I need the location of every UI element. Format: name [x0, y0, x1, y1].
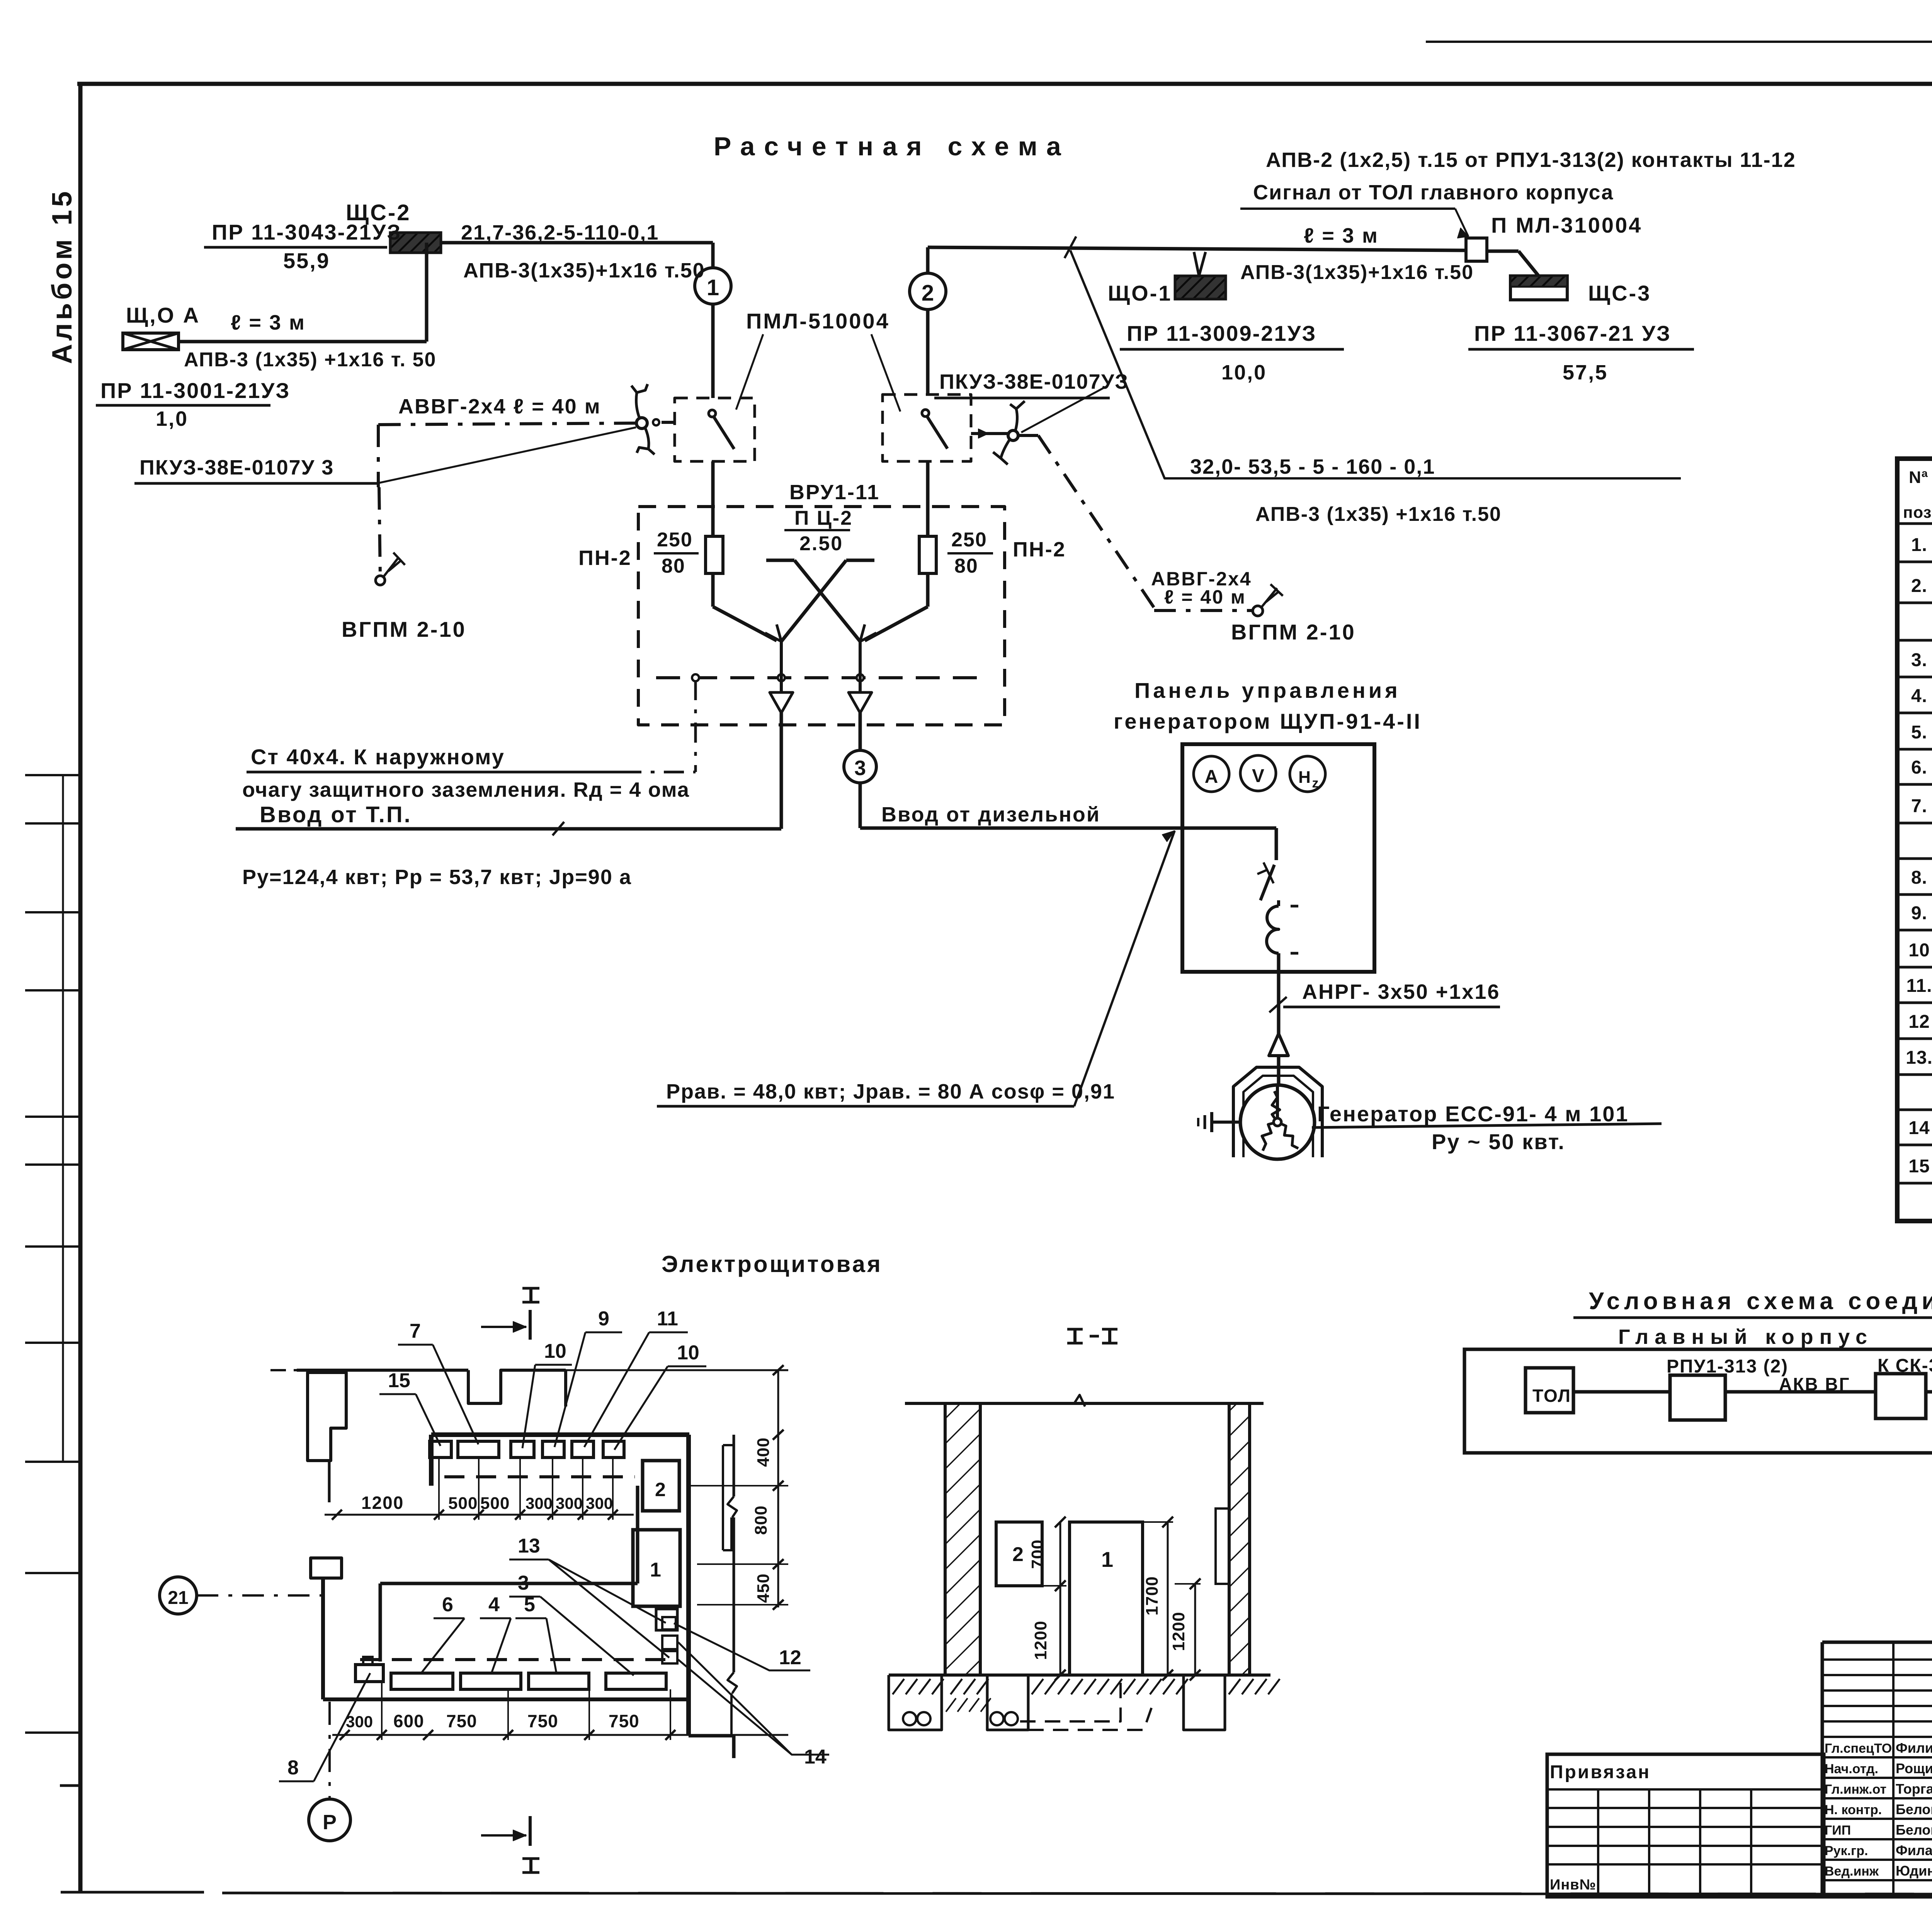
plan callout 6 [421, 1594, 464, 1673]
svg-text:55,9: 55,9 [283, 248, 330, 273]
svg-text:5.: 5. [1911, 722, 1927, 743]
plan upper-left pier [308, 1372, 346, 1502]
plan right wall outer with niche [723, 1435, 737, 1736]
svg-text:8: 8 [287, 1757, 299, 1779]
svg-text:Гл.спецТО: Гл.спецТО [1825, 1741, 1892, 1756]
svg-text:750: 750 [446, 1711, 477, 1731]
axis circle 21 with dash-dot line [160, 1577, 323, 1614]
plug symbol ВГПМ 2-10 left label [342, 617, 466, 641]
panel box ЩУП-91-4-II [1182, 744, 1374, 972]
svg-text:15: 15 [1908, 1156, 1930, 1177]
svg-text:Н: Н [1298, 768, 1311, 787]
svg-text:ПН-2: ПН-2 [578, 546, 632, 570]
device box КСК-32 [1876, 1355, 1932, 1418]
svg-text:300: 300 [526, 1494, 553, 1512]
svg-text:21,7-36,2-5-110-0,1: 21,7-36,2-5-110-0,1 [461, 221, 659, 244]
wire out of right box with cam switch [971, 401, 1038, 464]
plan adjacent wall top [270, 1365, 788, 1406]
svg-text:2: 2 [922, 281, 934, 306]
svg-text:2.50: 2.50 [799, 532, 843, 555]
svg-text:Привязан: Привязан [1550, 1762, 1651, 1782]
svg-text:Вед.инж: Вед.инж [1825, 1864, 1879, 1879]
svg-text:ℓ = 3 м: ℓ = 3 м [231, 311, 306, 334]
svg-text:ПР 11-3009-21УЗ: ПР 11-3009-21УЗ [1127, 321, 1316, 345]
svg-text:1200: 1200 [1031, 1621, 1050, 1660]
svg-text:2: 2 [655, 1479, 666, 1500]
axis circle P [309, 1702, 350, 1841]
break mark on wire [1065, 236, 1076, 258]
plan panel 1 box [633, 1530, 680, 1606]
svg-text:АПВ-3(1х35)+1х16 т.50: АПВ-3(1х35)+1х16 т.50 [463, 259, 705, 282]
section mark I top [481, 1288, 539, 1340]
svg-text:4.: 4. [1911, 686, 1927, 706]
svg-text:1.: 1. [1911, 535, 1927, 555]
svg-text:П МЛ-310004: П МЛ-310004 [1491, 213, 1642, 237]
fuse ПН-2 left [578, 461, 723, 607]
svg-text:ЩС-3: ЩС-3 [1588, 281, 1651, 305]
svg-text:А: А [1205, 767, 1218, 787]
svg-text:32,0- 53,5 - 5 - 160 - 0,1: 32,0- 53,5 - 5 - 160 - 0,1 [1190, 455, 1435, 478]
connector arrow to generator [1269, 1034, 1288, 1088]
meter Hz [1290, 756, 1325, 792]
svg-text:3: 3 [854, 757, 866, 780]
svg-text:ЩО-1: ЩО-1 [1108, 281, 1172, 305]
meter A [1194, 756, 1229, 792]
changeover crossover contacts [713, 560, 928, 641]
svg-text:Электрощитовая: Электрощитовая [662, 1251, 883, 1277]
svg-text:Филин: Филин [1896, 1740, 1932, 1756]
panel ЩО-1 filled box [1108, 276, 1226, 305]
node circle 3 [844, 750, 876, 828]
node circle 1 [695, 243, 731, 398]
equipment table header [1903, 468, 1932, 522]
svg-text:Рук.гр.: Рук.гр. [1825, 1844, 1868, 1858]
panel ЩС-2 label [346, 200, 411, 225]
plan callout 14 [678, 1642, 829, 1768]
tap to ЩО-1 [1194, 252, 1206, 276]
svg-text:450: 450 [754, 1573, 773, 1603]
plan lower panel row [355, 1657, 666, 1689]
section dim 1700 [1143, 1517, 1173, 1680]
plan right dimension 400 800 450 [691, 1370, 788, 1610]
cable label АПВ-3 (1х35)+1х16 т.50 left [184, 349, 436, 371]
svg-text:4: 4 [488, 1594, 500, 1616]
svg-text:ℓ = 40 м: ℓ = 40 м [1164, 586, 1246, 608]
svg-text:1: 1 [1101, 1547, 1113, 1571]
section trench left [889, 1675, 942, 1730]
plan callout 4 [480, 1594, 511, 1673]
plan callout 8 [279, 1673, 370, 1781]
wire ЩС-2 to node 1 [441, 241, 713, 245]
svg-text:750: 750 [527, 1711, 558, 1731]
scheme wire with break and arrow [1573, 1380, 1932, 1401]
meter V [1240, 755, 1276, 791]
svg-text:10,0: 10,0 [1221, 361, 1267, 384]
svg-text:3: 3 [518, 1572, 529, 1594]
svg-text:300: 300 [346, 1713, 373, 1731]
svg-text:10: 10 [1908, 940, 1930, 961]
sheet frame top thin edge line [1426, 41, 1932, 43]
input line Ввод от дизельной [860, 803, 1276, 828]
feeder label ПР 11-3043-21УЗ with 55,9 [204, 220, 401, 273]
svg-text:14: 14 [1908, 1118, 1930, 1138]
svg-text:7.: 7. [1911, 796, 1927, 816]
svg-text:АВВГ-2х4 ℓ = 40 м: АВВГ-2х4 ℓ = 40 м [398, 395, 601, 418]
svg-text:3.: 3. [1911, 650, 1927, 670]
svg-text:500: 500 [480, 1494, 510, 1513]
wire ЩОА to ЩС-2 node [179, 243, 427, 342]
svg-text:ПН-2: ПН-2 [1013, 538, 1066, 561]
section ground hatching [893, 1679, 1280, 1712]
feeder label ПР 11-3067-21 УЗ with 57,5 [1468, 321, 1694, 384]
svg-text:П Ц-2: П Ц-2 [794, 507, 853, 529]
generator label ЕСС-91-4 м 101 [1312, 1102, 1662, 1154]
svg-text:Рощин: Рощин [1896, 1760, 1932, 1776]
cabinet ВРУ1-11 dashed box [638, 481, 1005, 725]
svg-text:ТОЛ: ТОЛ [1532, 1386, 1571, 1406]
panel ЩОА label [126, 303, 200, 327]
panel ЩС-2 filled box [390, 233, 441, 253]
svg-text:700: 700 [1028, 1539, 1047, 1569]
signature table names [1825, 1740, 1932, 1879]
signal text Сигнал от ТОЛ главного корпуса [1240, 181, 1614, 238]
svg-text:Расчетная схема: Расчетная схема [714, 132, 1070, 161]
svg-text:10: 10 [677, 1342, 699, 1364]
length label l=3м right [1304, 224, 1379, 247]
svg-text:ПР 11-3043-21УЗ: ПР 11-3043-21УЗ [212, 220, 401, 244]
svg-text:6.: 6. [1911, 757, 1927, 778]
svg-text:80: 80 [954, 555, 978, 577]
svg-text:750: 750 [609, 1711, 639, 1731]
svg-text:13: 13 [518, 1535, 540, 1557]
svg-text:Сигнал от ТОЛ главного: Сигнал от ТОЛ главного корпуса [1253, 181, 1614, 204]
svg-text:ПМЛ-510004: ПМЛ-510004 [746, 309, 890, 333]
section underfloor dashed cable [1020, 1681, 1151, 1730]
plan callout 13 with leaders [509, 1535, 669, 1658]
ground symbol at generator [1198, 1112, 1241, 1132]
svg-text:400: 400 [754, 1437, 773, 1467]
device box РПУ1-313(2) [1667, 1356, 1788, 1420]
svg-text:Альбом 15: Альбом 15 [47, 188, 78, 364]
svg-text:АПВ-3 (1х35) +1х16 т.50: АПВ-3 (1х35) +1х16 т.50 [1255, 503, 1502, 526]
vertical text Альбом 15 [47, 188, 78, 364]
section ceiling line [905, 1395, 1264, 1406]
svg-text:9: 9 [598, 1308, 609, 1330]
switch label ПКУЗ-38Е-0107УЗ right [934, 370, 1129, 432]
input line Ввод от Т.П. [236, 802, 781, 889]
earth bus dashed with junctions [656, 674, 981, 681]
svg-text:12: 12 [779, 1646, 801, 1669]
svg-text:Инв№: Инв№ [1550, 1877, 1596, 1893]
earthing leader Ст 40х4 [242, 680, 696, 801]
svg-text:Условная схема соединения Р: Условная схема соединения РПУ1-313 (2) с… [1589, 1288, 1932, 1315]
dash-dot cable АВВГ right to ВГПМ [1038, 435, 1356, 644]
dash-dot cable АВВГ-2х4 to ВГПМ 2-10 left [376, 423, 636, 585]
svg-text:1700: 1700 [1143, 1576, 1162, 1616]
svg-text:57,5: 57,5 [1563, 361, 1608, 384]
svg-text:21: 21 [168, 1588, 188, 1608]
svg-text:8.: 8. [1911, 867, 1927, 888]
svg-text:1: 1 [650, 1559, 661, 1581]
section trench middle [987, 1675, 1028, 1730]
equipment table grid [1897, 459, 1932, 1221]
left margin fold ticks [25, 775, 80, 1786]
plan callout 12 [674, 1623, 810, 1670]
plan panel 2 box [643, 1461, 679, 1511]
section title I-I [1067, 1329, 1117, 1343]
svg-text:Р: Р [323, 1811, 337, 1834]
length label l=3м left [231, 311, 306, 334]
svg-text:ВГПМ 2-10: ВГПМ 2-10 [1231, 620, 1356, 644]
fuse ПН-2 right [919, 461, 1066, 607]
svg-text:2.: 2. [1911, 576, 1927, 596]
contactor ПМЛ-510004 label with leaders [736, 309, 900, 412]
main building box [1464, 1349, 1932, 1453]
svg-text:АПВ-3 (1х35) +1х16 т. 50: АПВ-3 (1х35) +1х16 т. 50 [184, 349, 436, 371]
panel title Панель управления генератором ЩУП-91-4-II [1114, 678, 1422, 733]
svg-text:1,0: 1,0 [156, 407, 188, 430]
svg-text:1: 1 [707, 275, 719, 300]
svg-text:Щ,О А: Щ,О А [126, 303, 200, 327]
contactor box left dashed [675, 398, 755, 461]
svg-text:Нач.отд.: Нач.отд. [1825, 1762, 1878, 1776]
svg-text:ВРУ1-11: ВРУ1-11 [789, 481, 880, 504]
svg-text:12: 12 [1908, 1012, 1930, 1032]
section dim 1200 right [1169, 1578, 1201, 1680]
svg-text:АНРГ- 3х50 +1х16: АНРГ- 3х50 +1х16 [1302, 980, 1500, 1003]
svg-text:Белокурова: Белокурова [1896, 1801, 1932, 1817]
svg-text:ℓ = 3 м: ℓ = 3 м [1304, 224, 1379, 247]
section trench right [1184, 1675, 1225, 1730]
svg-text:генератором ЩУП-91-4-II: генератором ЩУП-91-4-II [1114, 709, 1422, 733]
svg-text:Юдина: Юдина [1896, 1863, 1932, 1879]
section mark I bottom [481, 1816, 539, 1872]
svg-text:14: 14 [804, 1746, 827, 1768]
svg-text:2: 2 [1012, 1543, 1024, 1566]
plan conduit to panel 1 [380, 1486, 638, 1662]
switch label ПКУЗ-38Е-0107У3 left [134, 427, 636, 483]
title block left Привязан box [1547, 1754, 1824, 1897]
svg-text:Главный корпус: Главный корпус [1618, 1325, 1873, 1349]
svg-text:Ррав. = 48,0 квт; Jрав. = 8: Ррав. = 48,0 квт; Jрав. = 80 А cosφ = 0,… [666, 1080, 1115, 1103]
svg-text:ПР 11-3001-21УЗ: ПР 11-3001-21УЗ [100, 378, 290, 403]
svg-text:Nª: Nª [1909, 468, 1928, 487]
svg-text:11: 11 [657, 1308, 678, 1330]
plan left lower wall [311, 1558, 689, 1699]
svg-text:Филатова: Филатова [1896, 1842, 1932, 1858]
svg-text:600: 600 [393, 1711, 424, 1731]
plan right wall inner [689, 1435, 734, 1758]
section cabinet 1 [1070, 1522, 1143, 1675]
plan callout 5 [515, 1594, 556, 1673]
svg-text:1200: 1200 [1169, 1612, 1188, 1651]
plan callout 10 first [522, 1340, 572, 1448]
svg-text:9.: 9. [1911, 903, 1927, 923]
scheme title Условная схема соединения [1573, 1288, 1932, 1318]
feeder label ПР 11-3001-21УЗ with 1,0 [96, 378, 290, 430]
svg-text:ВГПМ 2-10: ВГПМ 2-10 [342, 617, 466, 641]
svg-text:АПВ-2 (1х2,5) т.15 от РПУ1-31: АПВ-2 (1х2,5) т.15 от РПУ1-313(2) контак… [1266, 148, 1796, 172]
svg-text:Н. контр.: Н. контр. [1825, 1803, 1882, 1817]
svg-text:7: 7 [410, 1320, 421, 1342]
floor plan title Электрощитовая [662, 1251, 883, 1277]
svg-text:ПКУЗ-38Е-0107У 3: ПКУЗ-38Е-0107У 3 [139, 456, 334, 479]
svg-text:Белокурова: Белокурова [1896, 1822, 1932, 1838]
svg-text:Торгашов: Торгашов [1896, 1781, 1932, 1797]
drop arrows below bus [770, 641, 872, 829]
svg-text:800: 800 [752, 1505, 770, 1535]
plan lower dashed cable run [360, 1658, 672, 1661]
svg-text:250: 250 [657, 529, 693, 551]
cable label АПВ-3(1х35)+1х16 т.50 middle [1240, 261, 1474, 284]
section left wall hatched [945, 1403, 980, 1675]
plan small boxes pos 12 13 14 [656, 1609, 677, 1663]
svg-text:300: 300 [556, 1494, 583, 1512]
svg-text:15: 15 [388, 1369, 410, 1392]
title block signature table grid [1822, 1642, 1932, 1897]
plan lower dimension line [332, 1682, 788, 1740]
wire node2 to ПМЛ-310004 contact [928, 247, 1539, 276]
main title Расчетная схема [714, 132, 1070, 161]
svg-text:500: 500 [448, 1494, 478, 1513]
section floor line [889, 1673, 1270, 1677]
plan upper dashed cable run [444, 1475, 635, 1478]
label Главный корпус [1618, 1325, 1873, 1349]
svg-text:10: 10 [544, 1340, 566, 1362]
cable label АВВГ-2х4 l=40м [398, 395, 601, 418]
cable label АНРГ-3х50+1х16 [1269, 980, 1500, 1034]
svg-text:Панель управления: Панель управления [1134, 678, 1401, 702]
svg-text:13.: 13. [1906, 1048, 1932, 1068]
plan callout 15 [379, 1369, 440, 1446]
svg-text:Ру=124,4 квт; Рр = 53,7 квт;: Ру=124,4 квт; Рр = 53,7 квт; Jр=90 а [242, 866, 632, 889]
section dim 700 1200 left [1028, 1517, 1066, 1680]
svg-text:Ру ~ 50 квт.: Ру ~ 50 квт. [1432, 1129, 1565, 1154]
panel ЩОА bowtie symbol [123, 333, 179, 350]
wire into left box with cam switch [631, 384, 675, 454]
svg-text:поз.: поз. [1903, 503, 1932, 521]
svg-text:очагу защитного заземления.: очагу защитного заземления. Rд = 4 ома [242, 778, 690, 801]
svg-text:ПР 11-3067-21 УЗ: ПР 11-3067-21 УЗ [1474, 321, 1671, 345]
label АКВВГ [1779, 1374, 1850, 1394]
signal text АПВ-2 (1х2,5) т.15 от РПУ1-313(2) контакты 11-12 [1266, 148, 1796, 172]
svg-text:V: V [1252, 766, 1264, 786]
section right wall hatched [1216, 1403, 1250, 1675]
svg-text:Гл.инж.от: Гл.инж.от [1825, 1782, 1886, 1797]
svg-text:Ввод от дизельной: Ввод от дизельной [881, 803, 1100, 826]
svg-text:6: 6 [442, 1594, 453, 1616]
svg-text:300: 300 [586, 1494, 613, 1512]
plan room top wall [431, 1435, 689, 1486]
device box ТОЛ [1526, 1368, 1573, 1413]
cable label АПВ-3(1х35)+1х16 т.50 [463, 259, 705, 282]
leader 32,0-53,5-5-160-0,1 [1070, 250, 1681, 526]
plan callout 10 second [614, 1342, 706, 1450]
plan callout 7 [398, 1320, 478, 1444]
svg-text:250: 250 [951, 529, 987, 551]
contact square ПМЛ-310004 [1466, 213, 1642, 261]
feeder label ПР 11-3009-21УЗ with 10,0 [1120, 321, 1344, 384]
svg-text:z: z [1312, 776, 1319, 791]
plan upper panel row [430, 1441, 624, 1458]
node circle 2 [910, 247, 946, 395]
svg-text:1200: 1200 [361, 1493, 404, 1513]
svg-text:11.: 11. [1906, 976, 1932, 996]
panel ЩС-3 box [1510, 276, 1651, 305]
section cabinet 2 [996, 1522, 1042, 1586]
svg-text:Ст 40х4. К наружному: Ст 40х4. К наружному [251, 745, 505, 769]
breaker and coil inside panel [1257, 828, 1298, 994]
plan callout 11 [584, 1308, 688, 1447]
svg-text:80: 80 [662, 555, 685, 577]
equipment table rows text [1906, 535, 1932, 1181]
load leader Ррав 48,0 квт [657, 831, 1175, 1106]
plan callout 3 [509, 1572, 634, 1675]
svg-text:ГИП: ГИП [1825, 1823, 1851, 1838]
svg-text:Ввод от Т.П.: Ввод от Т.П. [260, 802, 412, 827]
svg-text:Генератор ЕСС-91- 4 м 101: Генератор ЕСС-91- 4 м 101 [1317, 1102, 1629, 1126]
cable data 21,7-36,2-5-110-0,1 [461, 221, 659, 244]
plan callout 9 [554, 1308, 622, 1447]
svg-text:АПВ-3(1х35)+1х16 т.50: АПВ-3(1х35)+1х16 т.50 [1240, 261, 1474, 284]
plan upper dimension line [325, 1458, 634, 1520]
generator symbol [1233, 1067, 1322, 1159]
contactor box right dashed [883, 395, 971, 461]
